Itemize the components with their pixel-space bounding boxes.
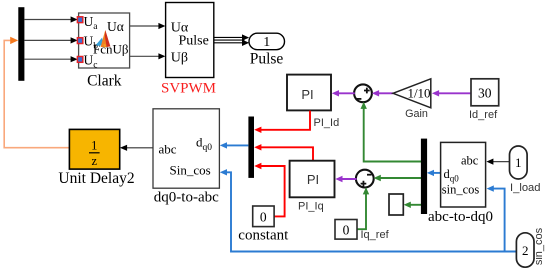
svg-text:Id_ref: Id_ref [469, 109, 498, 121]
svg-text:1: 1 [263, 35, 270, 50]
wire Uc phase [24, 56, 77, 62]
wire red PI_Id output to mux [254, 111, 310, 133]
svg-text:PI: PI [301, 87, 313, 102]
wire purple Id_ref to gain [432, 90, 471, 96]
block SVPWM [166, 3, 214, 78]
wire blue sin_cos branch to abc-to-dq0 [487, 185, 505, 251]
svg-text:Iq_ref: Iq_ref [361, 229, 390, 241]
svg-text:sin_cos: sin_cos [533, 227, 545, 265]
inport 1 I_load [510, 146, 528, 179]
wire green demux 0 to terminator [404, 202, 422, 208]
constant block 0 (Iq_ref) [335, 220, 357, 240]
svg-text:Uα: Uα [107, 19, 124, 34]
svg-text:abc: abc [461, 154, 479, 168]
wire blue abc-to-dq0 output to demux [427, 170, 441, 176]
constant block 0 (constant) [253, 206, 274, 227]
svg-text:constant: constant [238, 227, 289, 243]
svg-text:0: 0 [343, 222, 350, 237]
svg-text:z: z [92, 154, 98, 168]
block Unit Delay2 [69, 129, 119, 169]
svg-text:30: 30 [478, 85, 492, 100]
wire purple sum1 to PI_Id [332, 90, 355, 96]
svg-text:abc: abc [159, 142, 177, 157]
mux bus dq0 [248, 117, 254, 178]
svg-text:Pulse: Pulse [250, 51, 284, 68]
gain block 1/10 [393, 79, 431, 108]
sum junction 2 (Iq) [356, 170, 374, 188]
demux bus dq0 (right) [421, 139, 427, 214]
svg-text:abc-to-dq0: abc-to-dq0 [428, 209, 493, 225]
port marker Ua [77, 17, 82, 23]
svg-text:1/10: 1/10 [407, 86, 430, 101]
wire green Iq_ref to sum2 [357, 187, 369, 229]
svg-text:Sin_cos: Sin_cos [170, 163, 211, 178]
constant block Id_ref value 30 [471, 79, 499, 106]
wire green demux d to sum1 [361, 102, 422, 162]
svg-text:Gain: Gain [405, 108, 428, 120]
wire Clark Ubeta to SVPWM [130, 53, 166, 59]
svg-text:I_load: I_load [510, 182, 540, 194]
sum junction 1 (Id) [354, 84, 372, 102]
inport 2 sin_cos [516, 233, 534, 267]
wire blue sin_cos net from inport 2 [220, 169, 517, 251]
svg-text:PI_Iq: PI_Iq [298, 201, 324, 213]
wire dq0-to-abc output to Unit Delay2 [120, 145, 153, 151]
svg-text:PI: PI [307, 172, 319, 187]
terminator box [389, 194, 403, 215]
outport 1 Pulse [249, 33, 285, 50]
wire I_load to abc-to-dq0 [486, 159, 509, 165]
svg-text:PI_Id: PI_Id [314, 117, 340, 129]
block PI_Id [287, 75, 331, 111]
svg-text:1: 1 [515, 155, 522, 170]
svg-text:sin_cos: sin_cos [442, 182, 480, 196]
wire Ua phase [24, 16, 77, 22]
port marker Ub [77, 38, 82, 44]
block dq0-to-abc [153, 109, 219, 188]
port marker Uc [77, 57, 82, 63]
block PI_Iq [290, 161, 335, 198]
svg-text:SVPWM: SVPWM [161, 81, 216, 97]
svg-text:Pulse: Pulse [179, 34, 209, 49]
wire green demux q to sum2 [374, 175, 422, 181]
wire red constant 0 to mux [254, 163, 284, 217]
wire Ub phase [24, 37, 77, 43]
block abc-to-dq0 [441, 142, 486, 207]
wire orange: Unit Delay2 output up into demux bus [4, 37, 69, 148]
svg-text:Unit Delay2: Unit Delay2 [58, 170, 134, 187]
wire purple sum2 to PI_Iq [335, 176, 356, 182]
wire red PI_Iq output to mux [254, 144, 313, 160]
wire purple gain to sum1 [372, 90, 393, 96]
svg-text:dq0-to-abc: dq0-to-abc [154, 190, 219, 206]
svg-text:1: 1 [91, 139, 97, 153]
svg-text:Clark: Clark [87, 73, 122, 90]
wire blue mux to dq0-to-abc [220, 142, 249, 148]
svg-text:0: 0 [260, 210, 267, 225]
svg-text:Uβ: Uβ [171, 51, 188, 66]
demux bus (abc to 3 phases, top-left) [18, 7, 24, 81]
block Clark [79, 13, 130, 71]
svg-text:2: 2 [522, 243, 529, 258]
MATLAB logo icon inside Clark [96, 30, 110, 49]
wire Pulse 3-line bus SVPWM to outport [214, 34, 249, 46]
wire Clark Ualpha to SVPWM [130, 23, 166, 29]
